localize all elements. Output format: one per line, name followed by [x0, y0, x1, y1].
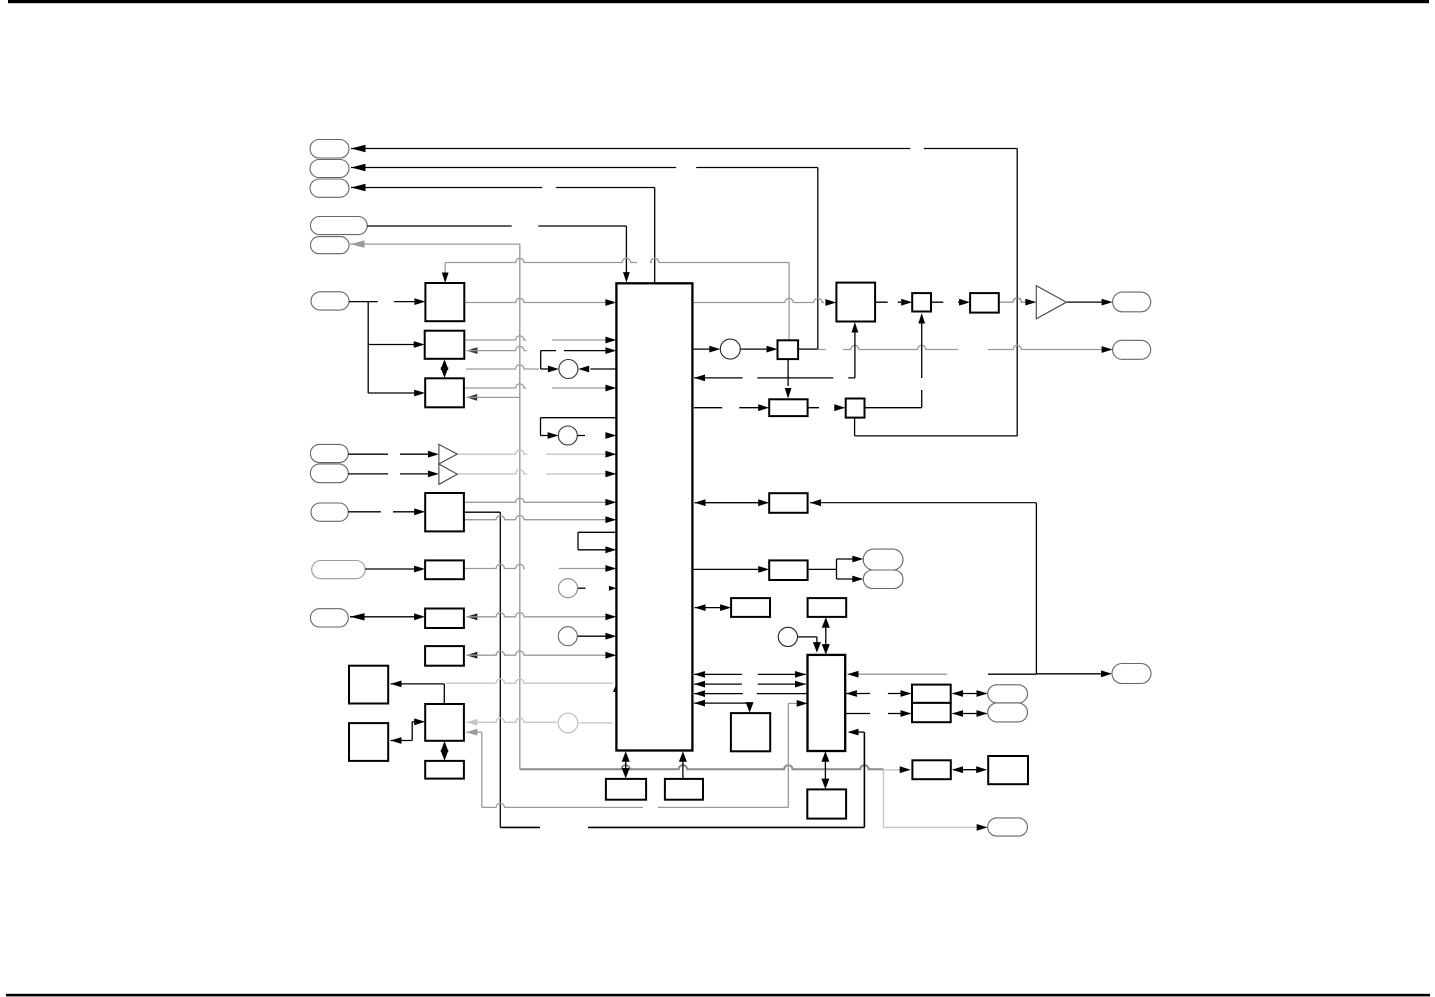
- arrowhead into C1 right: [578, 366, 589, 373]
- arrowhead into CC: [900, 766, 911, 773]
- wire gray to IC up-arrow: [446, 679, 613, 683]
- arrowhead into IC right y702: [694, 700, 705, 707]
- arrowhead into U2: [852, 576, 863, 583]
- buffer 2: [439, 464, 457, 484]
- wire corner vertical x540: [540, 351, 542, 369]
- wire buffer2 out b: [546, 473, 608, 475]
- arrowhead into IC right y502: [695, 499, 706, 506]
- wire IC to M gray: [692, 298, 824, 302]
- arrowhead into IC y474: [605, 471, 616, 478]
- arrowhead into F left: [414, 613, 425, 620]
- wire C7 to J: [466, 718, 557, 722]
- wire P2 top line: [351, 167, 818, 169]
- arrowhead into M left: [825, 299, 836, 306]
- wire IC to R: [694, 407, 759, 409]
- block T: [769, 560, 807, 580]
- arrowhead up into IC bottom 2: [679, 751, 687, 762]
- wire gray branch to BB: [883, 826, 979, 828]
- loop1 out: [541, 417, 617, 419]
- block D: [425, 493, 464, 531]
- wire gray into corner: [466, 365, 539, 369]
- block F: [425, 609, 464, 629]
- wire B out gray: [464, 336, 608, 340]
- block J: [425, 704, 464, 741]
- arrowhead into IC y519: [605, 516, 616, 523]
- wire X-Z1: [846, 693, 911, 695]
- wire into C gray: [466, 396, 520, 398]
- wire C4 to IC: [577, 635, 607, 637]
- wire IC-V link: [695, 607, 730, 609]
- arrowhead up into J bottom: [441, 741, 449, 752]
- wire gray bus vertical: [519, 244, 521, 769]
- wire B-C link: [444, 362, 446, 376]
- arrowhead into C left: [414, 390, 425, 397]
- loop1 C2 to IC: [577, 435, 585, 437]
- wire y378: [694, 377, 855, 379]
- arrowhead into S right: [810, 499, 821, 506]
- wire black bus up: [863, 732, 865, 827]
- wire IC to C1: [591, 368, 617, 370]
- arrowhead into P11: [350, 613, 365, 620]
- wire P7 line: [348, 453, 388, 455]
- arrowhead into I right: [391, 681, 402, 688]
- wire to U2: [837, 578, 856, 580]
- wire branch to C: [368, 392, 416, 394]
- wire P8 line: [348, 473, 388, 475]
- wire Q out: [865, 407, 922, 409]
- wire IC-S link: [695, 502, 768, 504]
- block E: [425, 560, 464, 579]
- block GG: [731, 713, 770, 751]
- wire IC-X y674: [694, 673, 806, 675]
- wire C6 stub: [798, 636, 817, 638]
- wire C3 stub: [577, 587, 585, 589]
- page bottom border rule: [6, 994, 1430, 997]
- arrowhead into X right y732: [848, 729, 859, 736]
- arrowhead into IC y568: [605, 565, 616, 572]
- wire gray into X left: [788, 702, 800, 704]
- wire gray branch down: [882, 770, 884, 828]
- block B: [425, 331, 465, 359]
- wire C5 to N: [740, 348, 769, 350]
- connector pill P10: [312, 561, 366, 579]
- wire gray down to A: [444, 263, 446, 280]
- connector pill U1: [863, 549, 903, 570]
- arrowhead into Z2 right: [952, 710, 963, 717]
- arrowhead up into IC bottom: [622, 751, 630, 762]
- wire to RP3: [1036, 673, 1103, 675]
- wire D out1 gray: [464, 498, 608, 502]
- arrowhead into B left: [414, 341, 425, 348]
- arrowhead into IC left y302: [605, 299, 616, 306]
- arrowhead into C1 left: [548, 366, 559, 373]
- wire buffer to RP1: [1066, 301, 1103, 303]
- block R: [769, 399, 807, 416]
- wire into B gray: [467, 346, 528, 350]
- circle C1: [559, 360, 578, 379]
- loop1 to C2: [541, 435, 553, 437]
- wire black bus vertical: [499, 512, 501, 827]
- block V: [731, 598, 770, 617]
- wire X-Z2: [845, 713, 910, 715]
- arrowhead into IC y454: [605, 451, 616, 458]
- wire C7 right stub: [579, 722, 613, 724]
- arrowhead into IC y435: [605, 432, 616, 439]
- arrowhead into IC left y388: [605, 385, 616, 392]
- circle C6: [778, 627, 797, 646]
- wire P9 line: [348, 511, 416, 513]
- wire IC to C5: [692, 348, 712, 350]
- wire N to junction: [798, 348, 818, 350]
- arrowhead into buffer: [1025, 299, 1036, 306]
- wire S long line: [810, 502, 1036, 504]
- wire into J left: [412, 721, 416, 723]
- circle C2: [558, 426, 577, 445]
- block K: [606, 779, 646, 800]
- wire P1 vertical: [1016, 149, 1018, 436]
- block P: [970, 293, 999, 313]
- wire IC-X y684: [694, 683, 806, 685]
- wire F-IC gray: [466, 613, 608, 617]
- wire x1036 to X gray: [848, 673, 948, 675]
- connector pill RP3: [1112, 664, 1151, 684]
- wire M bottom vertical: [854, 326, 856, 378]
- block Z1: [912, 685, 951, 703]
- arrowhead into X left y684: [795, 681, 806, 688]
- arrowhead into J right 2: [466, 729, 477, 736]
- arrowhead into IC right y607: [695, 604, 706, 611]
- loop1 vertical: [540, 418, 542, 436]
- wire J-L link: [444, 744, 446, 759]
- wire T split: [836, 559, 838, 579]
- block H: [425, 646, 464, 666]
- wire gray y807: [482, 803, 789, 807]
- loop2 back: [578, 549, 608, 551]
- wire P5 gray line: [350, 243, 520, 245]
- connector pill RP1: [1113, 292, 1151, 312]
- arrowhead into P left: [959, 299, 970, 306]
- wire J in2 vertical: [481, 732, 483, 807]
- arrowhead into DD left: [976, 766, 987, 773]
- arrowhead up into W bottom: [822, 617, 830, 628]
- wire buffer1 out: [457, 450, 527, 454]
- arrowhead into S left: [758, 499, 769, 506]
- arrowhead into IC y502: [605, 499, 616, 506]
- arrowhead into H right: [466, 652, 477, 659]
- arrowhead into IC left y350: [605, 347, 616, 354]
- arrowhead into C right: [466, 394, 477, 401]
- arrowhead into R left: [758, 404, 769, 411]
- wire IC-K link: [625, 754, 627, 777]
- connector pill P6: [311, 292, 349, 310]
- arrowhead into IC y636: [605, 633, 616, 640]
- loop2 vertical: [577, 532, 579, 550]
- block L: [425, 761, 464, 779]
- arrowhead into O left: [901, 299, 912, 306]
- arrowhead into E left: [414, 566, 425, 573]
- wire R to Q: [808, 407, 836, 409]
- arrowhead into Q left: [834, 404, 845, 411]
- block W: [808, 598, 847, 617]
- arrowhead into C2: [548, 432, 559, 439]
- wire D out2 black: [464, 511, 500, 513]
- arrowhead into RP2: [1102, 346, 1113, 353]
- wire IC y693 stub: [694, 693, 808, 695]
- wire P7 line b: [400, 453, 430, 455]
- arrowhead into IC y549: [605, 546, 616, 553]
- arrowhead into B right: [467, 347, 478, 354]
- arrowhead into X top: [813, 642, 821, 653]
- wire P10 line: [365, 568, 416, 570]
- block Z2: [912, 703, 951, 722]
- arrowhead into X right y674: [848, 671, 859, 678]
- loop2 out: [578, 531, 616, 533]
- block DD: [988, 756, 1028, 784]
- wire D out3 gray: [464, 516, 608, 520]
- arrowhead into N left: [767, 346, 778, 353]
- wire K2-IC link: [682, 754, 684, 779]
- arrowhead into buffer1: [428, 451, 439, 458]
- wire P8 line b: [400, 473, 430, 475]
- wire branch to B: [368, 344, 416, 346]
- wire P1 lower horizontal: [855, 435, 1017, 437]
- block A: [425, 283, 464, 321]
- block I2: [349, 723, 388, 761]
- arrowhead up at IC left edge: [613, 684, 620, 692]
- arrowhead into J left: [414, 718, 425, 725]
- arrowhead into U1: [852, 556, 863, 563]
- arrowhead into IC y616: [605, 613, 616, 620]
- connector pill P4: [311, 217, 368, 235]
- wire I2-J link low: [391, 740, 413, 742]
- arrowhead into P3: [351, 184, 366, 191]
- wire gray to RP2: [818, 345, 1103, 349]
- wire T out: [808, 568, 837, 570]
- block X: [808, 655, 846, 751]
- wire I-J vertical: [443, 684, 445, 704]
- main IC: [616, 283, 692, 750]
- wire W-X link: [825, 620, 827, 653]
- wire O to P: [932, 301, 959, 303]
- arrowhead into main IC top: [623, 272, 630, 283]
- wire C6 down: [816, 637, 818, 650]
- arrowhead into BB: [977, 824, 988, 831]
- wire P to buffer: [999, 298, 1034, 302]
- arrowhead down into L top: [441, 750, 449, 761]
- connector pill AA1: [988, 685, 1028, 703]
- arrowhead into Z1 right: [952, 690, 963, 697]
- arrowhead into IC right y378: [694, 375, 705, 382]
- arrowhead into IC y655: [605, 652, 616, 659]
- wire gray down to N: [788, 263, 790, 341]
- arrowhead into IC y588: [609, 586, 617, 591]
- wire gray x788 up: [787, 703, 789, 807]
- wire M to O: [875, 301, 901, 303]
- arrowhead into P1: [351, 145, 366, 152]
- wire I2-J vertical: [411, 722, 413, 741]
- arrowhead into I2 right: [391, 737, 402, 744]
- arrowhead down into X top: [822, 644, 830, 655]
- connector pill RP2: [1113, 340, 1151, 359]
- arrowhead into R top: [785, 388, 792, 399]
- arrowhead into V left: [720, 604, 731, 611]
- connector pill U2: [863, 570, 903, 589]
- arrowhead into A left: [414, 298, 425, 305]
- arrowhead into J right: [466, 719, 477, 726]
- wire black to IC y350: [541, 350, 608, 352]
- connector pill AA2: [988, 703, 1028, 722]
- arrowhead into Z1 left: [901, 690, 912, 697]
- arrowhead into X left y703: [797, 700, 808, 707]
- connector pill P2: [310, 160, 349, 178]
- arrowhead into IC right y693: [694, 690, 705, 697]
- wire Z1-AA1: [953, 693, 987, 695]
- connector pill P9: [311, 503, 348, 521]
- wire x1036 to X black: [988, 673, 1036, 675]
- wire buffer1 out b: [546, 453, 608, 455]
- arrowhead into buffer2: [428, 471, 439, 478]
- arrowhead into P5: [350, 240, 365, 247]
- arrowhead into IC left y340: [605, 337, 616, 344]
- arrowhead into M bottom: [852, 322, 859, 333]
- wire gray A-N link: [445, 258, 789, 262]
- wire X-EE link: [824, 754, 826, 788]
- arrowhead into X left y674: [795, 671, 806, 678]
- output buffer: [1036, 286, 1066, 319]
- arrowhead into P2: [351, 164, 366, 171]
- arrowhead into F right: [466, 613, 477, 620]
- arrowhead into CC right: [952, 766, 963, 773]
- block K2: [665, 779, 703, 800]
- wire buffer2 out: [457, 470, 527, 474]
- wire E out gray: [464, 564, 608, 568]
- arrowhead into D left: [414, 508, 425, 515]
- block C: [425, 378, 464, 407]
- block I: [349, 666, 388, 704]
- wire CC-DD: [953, 769, 985, 771]
- circle C4: [558, 627, 577, 646]
- arrowhead into A top: [442, 273, 449, 284]
- wire N to R: [787, 359, 789, 386]
- wire P3 vertical: [654, 188, 656, 284]
- wire into X right y732: [852, 731, 864, 733]
- buffer 1: [439, 444, 457, 464]
- wire P2 vertical: [817, 168, 819, 350]
- circle C7: [558, 713, 578, 733]
- arrowhead into C5: [709, 346, 720, 353]
- block N: [778, 340, 799, 359]
- wire x1036 vertical: [1035, 503, 1037, 674]
- block CC: [912, 760, 950, 779]
- connector pill P3: [310, 179, 349, 197]
- wire I-J link: [391, 683, 445, 685]
- connector pill P7: [310, 444, 348, 462]
- wire P4 vertical: [625, 226, 627, 280]
- wire IC to T: [692, 568, 767, 570]
- wire gray bus to CC: [883, 769, 901, 771]
- arrowhead into X right y693: [846, 690, 857, 697]
- arrowhead into RP3: [1101, 670, 1112, 677]
- wire O bottom vertical: [921, 316, 923, 408]
- wire Z2-AA2: [953, 713, 987, 715]
- wire Q bottom stub: [854, 418, 856, 436]
- arrowhead up into B bottom: [441, 359, 449, 370]
- arrowhead into RP1: [1102, 299, 1113, 306]
- arrowhead into O bottom: [918, 313, 925, 324]
- circle C5: [720, 339, 740, 359]
- wire gray bus horizontal: [520, 765, 884, 769]
- wire A to IC gray: [464, 298, 610, 302]
- block EE: [807, 789, 846, 818]
- arrowhead into T left: [758, 566, 769, 573]
- wire P6 line: [349, 301, 419, 303]
- wire P4 line: [367, 225, 626, 227]
- wire black bus bottom: [500, 826, 864, 828]
- connector pill P1: [310, 140, 349, 159]
- wire GG feed vertical: [749, 703, 751, 709]
- arrowhead down into EE top: [821, 779, 829, 790]
- block O: [912, 293, 931, 311]
- wire P3 top line: [351, 187, 655, 189]
- block S: [769, 493, 807, 513]
- wire P11-F link: [350, 616, 417, 618]
- connector pill P8: [310, 464, 348, 483]
- block M: [836, 283, 875, 322]
- wire to U1: [837, 558, 856, 560]
- arrowhead up into X bottom: [821, 751, 829, 762]
- arrowhead down into K top: [622, 768, 630, 779]
- wire branch vertical: [367, 302, 369, 393]
- circle C3: [559, 579, 578, 598]
- arrowhead into AA2: [977, 710, 988, 717]
- arrowhead into IC right y674: [694, 671, 705, 678]
- wire P1 top line: [351, 148, 1017, 150]
- wire IC y702 to GG: [694, 702, 750, 704]
- wire J in2 gray: [466, 731, 482, 733]
- wire corner to circle C1: [541, 368, 552, 370]
- wire H-IC gray: [466, 651, 608, 655]
- connector pill BB: [988, 818, 1028, 836]
- arrowhead down into C top: [441, 367, 449, 378]
- page top border rule: [8, 0, 1429, 3]
- arrowhead into AA1: [977, 690, 988, 697]
- connector pill P5: [311, 237, 350, 254]
- block Q: [846, 399, 865, 418]
- arrowhead into Z2 left: [901, 710, 912, 717]
- arrowhead into GG top: [746, 702, 754, 713]
- wire C out gray: [464, 384, 608, 388]
- connector pill P11: [310, 609, 348, 627]
- arrowhead into IC right y684: [694, 681, 705, 688]
